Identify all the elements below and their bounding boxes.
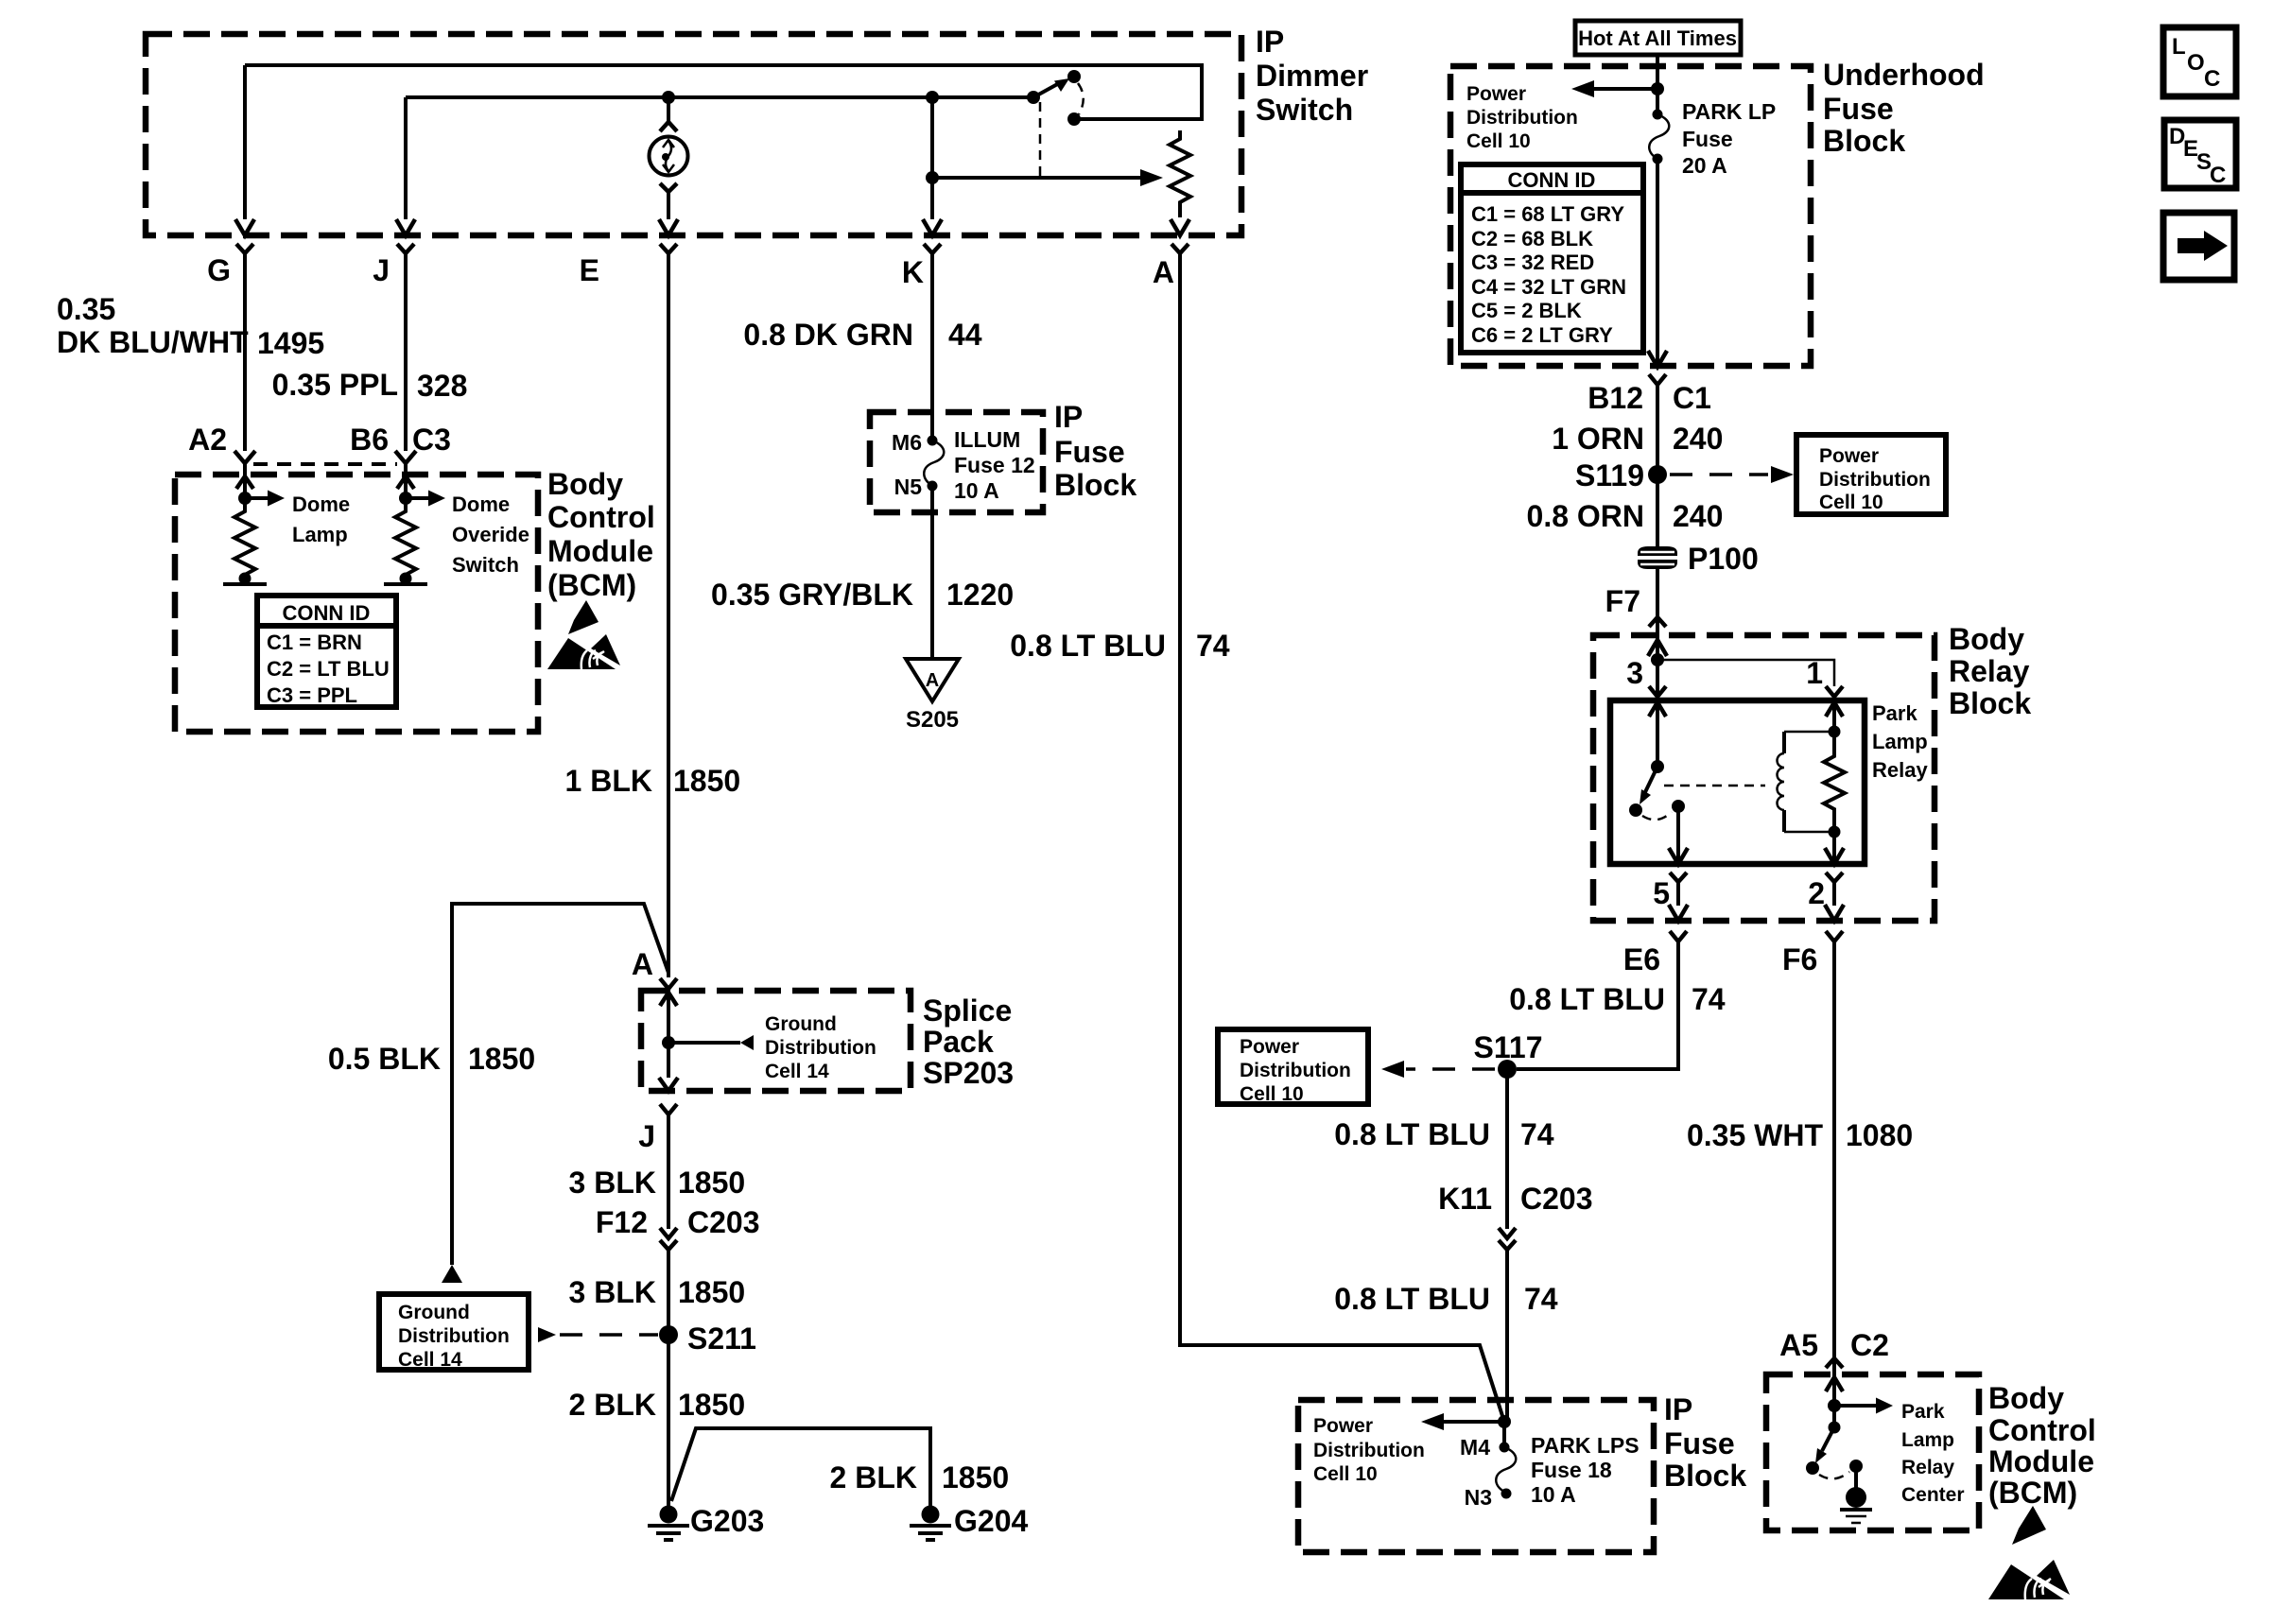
node: K junction on second bus [926, 91, 939, 104]
relay output wire to pin 5 [1676, 806, 1680, 864]
switch blade with arrowhead [1822, 1427, 1834, 1451]
svg-text:1850: 1850 [942, 1460, 1009, 1494]
svg-text:3: 3 [1626, 656, 1643, 690]
wire: K drop inside box [930, 97, 934, 219]
svg-text:Park: Park [1901, 1401, 1945, 1423]
wire: S117 down to K11 [1505, 1069, 1509, 1229]
svg-text:74: 74 [1692, 982, 1726, 1016]
svg-text:A: A [632, 947, 653, 981]
svg-text:0.8 LT BLU: 0.8 LT BLU [1010, 629, 1166, 663]
lamp symbol on E branch [667, 97, 670, 122]
off-page triangle S205 [906, 659, 959, 701]
svg-text:C203: C203 [1520, 1182, 1593, 1216]
switch: dimmer selector common contact [1027, 91, 1040, 104]
wire: 1 ORN 240 [1656, 385, 1659, 554]
wire: K branch to rheostat wiper with arrowhead [932, 176, 1142, 180]
svg-text:Module: Module [547, 534, 653, 568]
arrowhead into relay at pin 3 [1649, 702, 1666, 717]
svg-text:Block: Block [1054, 468, 1136, 502]
dashed arrow S117 to Power Distribution box [1406, 1067, 1495, 1071]
wire: fuse output down through box [1656, 159, 1659, 366]
resistor dome override [395, 498, 416, 579]
node: splice junction [662, 1036, 675, 1049]
svg-text:Control: Control [1988, 1413, 2096, 1447]
CONN ID box right [1461, 164, 1643, 353]
wire: E6 riser to S117 [1517, 942, 1678, 1069]
wire: A2 stem into BCM [243, 463, 247, 498]
svg-text:0.35 PPL: 0.35 PPL [272, 368, 398, 402]
svg-text:328: 328 [417, 369, 467, 403]
svg-text:Ground: Ground [765, 1013, 837, 1035]
Hot At All Times box [1575, 21, 1741, 55]
arrowhead K exits box [923, 219, 942, 235]
svg-text:Relay: Relay [1901, 1457, 1954, 1478]
wire: E branch lower [667, 192, 670, 219]
svg-text:N3: N3 [1465, 1485, 1492, 1510]
arrowhead into relay block [1648, 640, 1667, 656]
wire to internal ground [1854, 1466, 1858, 1491]
wire: 0.5 BLK branch [452, 904, 668, 1265]
dome lamp ground bar [239, 573, 252, 585]
wire: F6 down to BCM A5/C2 [1832, 942, 1836, 1357]
svg-text:L: L [2172, 34, 2186, 60]
dashed arc to ground contact [1819, 1472, 1849, 1478]
ESD symbol bottom right [1988, 1506, 2070, 1599]
svg-text:3 BLK: 3 BLK [569, 1275, 656, 1309]
arrowhead pin 2 exits relay [1825, 848, 1844, 864]
svg-text:Power: Power [1240, 1036, 1299, 1058]
node: splice S117 [1498, 1060, 1517, 1079]
relay resistor [1824, 700, 1845, 864]
Body Relay Block dashed box [1593, 635, 1935, 921]
wire into BCM [1832, 1358, 1836, 1427]
arrowhead into splice pack [660, 993, 677, 1006]
arrow to Ground Distribution Cell 14 (in splice pack) [668, 1041, 740, 1045]
switch pivot in BCM [1829, 1422, 1841, 1434]
ground G204 [922, 1506, 940, 1524]
svg-text:A5: A5 [1779, 1328, 1818, 1362]
svg-text:Relay: Relay [1949, 654, 2030, 688]
arrowhead J exits box [396, 219, 415, 235]
fuse PARK LP 20 A [1653, 110, 1663, 120]
svg-text:PARK LP: PARK LP [1682, 99, 1776, 124]
switch lower throw contact [1067, 112, 1081, 126]
Ground Distribution Cell 14 box [379, 1294, 529, 1370]
svg-text:Power: Power [1819, 445, 1879, 467]
node: dome lamp junction [238, 492, 252, 505]
svg-text:Body: Body [547, 467, 623, 501]
svg-text:Distribution: Distribution [1819, 469, 1931, 491]
node: junction pin3/pin1 feed [1651, 653, 1664, 666]
svg-text:Distribution: Distribution [1313, 1440, 1425, 1461]
arrow to Power Distribution Cell 10 [1594, 87, 1657, 91]
svg-text:Dome: Dome [452, 492, 510, 516]
svg-text:Park: Park [1872, 701, 1917, 725]
svg-text:74: 74 [1196, 629, 1230, 663]
svg-text:Distribution: Distribution [398, 1325, 510, 1347]
svg-text:A: A [926, 670, 939, 691]
svg-text:240: 240 [1673, 422, 1723, 456]
svg-text:C2 = LT BLU: C2 = LT BLU [267, 657, 390, 681]
svg-text:DK BLU/WHT: DK BLU/WHT [57, 325, 249, 359]
Park Lamp Relay solid box [1610, 700, 1865, 864]
svg-text:C4 = 32 LT GRN: C4 = 32 LT GRN [1471, 275, 1626, 299]
arrowhead into BCM at A2 [236, 476, 253, 489]
rheostat (dimmer resistor) [1170, 130, 1190, 217]
IP Fuse Block dashed box (bottom) [1298, 1400, 1654, 1552]
svg-text:CONN ID: CONN ID [283, 601, 371, 625]
svg-text:CONN ID: CONN ID [1508, 168, 1596, 192]
connector chevron J below box [397, 244, 414, 253]
Power Distribution Cell 10 box (mid) [1218, 1029, 1368, 1104]
resistor dome lamp [234, 498, 255, 579]
svg-text:A: A [1153, 255, 1174, 289]
svg-text:S117: S117 [1474, 1030, 1543, 1064]
svg-text:0.8 LT BLU: 0.8 LT BLU [1334, 1282, 1490, 1316]
connector chevron B12/C1 [1649, 374, 1666, 385]
svg-text:C203: C203 [687, 1205, 760, 1239]
svg-text:(BCM): (BCM) [547, 568, 636, 602]
DESC box [2164, 120, 2236, 188]
svg-text:Overide: Overide [452, 523, 529, 546]
switch contact [1806, 1461, 1819, 1475]
relay switch blade with arrowhead [1645, 767, 1657, 792]
svg-text:Body: Body [1988, 1381, 2064, 1415]
svg-text:Fuse: Fuse [1682, 127, 1733, 151]
Splice Pack dashed box [641, 991, 911, 1091]
wire: E (1 BLK) from dimmer to splice pack [667, 253, 670, 977]
dashed arrow S119 to Power Distribution box [1670, 473, 1768, 476]
svg-text:IP: IP [1256, 25, 1284, 59]
wire: J down to BCM connector [404, 253, 408, 451]
node: junction at power distribution tap [1651, 82, 1664, 95]
connector chevron above splice pack [660, 978, 677, 989]
ground G203 [660, 1506, 678, 1524]
wire: 0.8 LT BLU into IP fuse block [1505, 1250, 1509, 1422]
svg-text:Hot At All Times: Hot At All Times [1578, 26, 1737, 50]
arrowhead A wire exits box [1171, 219, 1189, 235]
svg-text:G: G [207, 253, 231, 287]
ESD symbol left [547, 600, 620, 669]
pin chevron 2 [1826, 872, 1843, 882]
wire: dimmer top bus (G to switch feed) [245, 65, 1202, 119]
arrowhead G exits box [235, 219, 254, 235]
connector chevron J below splice pack [660, 1104, 677, 1114]
wire: 0.35 GRY/BLK to S205 [930, 486, 934, 659]
svg-text:J: J [638, 1119, 655, 1153]
svg-text:C5 = 2 BLK: C5 = 2 BLK [1471, 299, 1582, 322]
arrow to Park Lamp Relay Center label [1834, 1404, 1876, 1408]
relay switch contact [1629, 803, 1642, 817]
svg-text:Cell 14: Cell 14 [765, 1061, 829, 1082]
relay switch feed wire [1656, 700, 1659, 767]
wire pin5 to block edge [1676, 882, 1680, 906]
svg-text:Module: Module [1988, 1444, 2094, 1478]
svg-text:M4: M4 [1460, 1435, 1490, 1460]
svg-text:0.5 BLK: 0.5 BLK [328, 1042, 441, 1076]
relay coil [1782, 732, 1786, 832]
svg-text:240: 240 [1673, 499, 1723, 533]
svg-text:Cell 10: Cell 10 [1313, 1463, 1378, 1485]
arrowhead into BCM [1826, 1377, 1843, 1391]
svg-text:C2: C2 [1850, 1328, 1889, 1362]
svg-text:44: 44 [948, 318, 982, 352]
relay switch pivot [1651, 760, 1664, 773]
svg-text:Cell 10: Cell 10 [1819, 492, 1883, 513]
svg-text:74: 74 [1520, 1117, 1554, 1151]
dashed mechanical link coil to switch [1664, 785, 1765, 787]
svg-text:K11: K11 [1438, 1182, 1492, 1216]
arrowhead into BCM at C3 [397, 476, 414, 489]
wire: G drop inside box [243, 65, 247, 219]
svg-text:C1 = 68 LT GRY: C1 = 68 LT GRY [1471, 202, 1624, 226]
svg-text:N5: N5 [894, 475, 923, 499]
svg-text:Switch: Switch [452, 553, 519, 577]
svg-text:S205: S205 [906, 707, 959, 733]
svg-text:1850: 1850 [678, 1275, 745, 1309]
svg-text:Block: Block [1664, 1459, 1746, 1493]
wire pin2 to block edge [1832, 882, 1836, 906]
dashed arrow from box to S211 [538, 1327, 556, 1342]
off-page triangle to ground distribution [442, 1265, 462, 1283]
wire: dimmer second bus (J to switch common) [406, 95, 1030, 99]
svg-text:Lamp: Lamp [292, 523, 348, 546]
svg-text:Underhood: Underhood [1823, 58, 1985, 92]
svg-text:1850: 1850 [678, 1388, 745, 1422]
svg-text:10 A: 10 A [954, 478, 999, 503]
pin chevron 5 [1670, 872, 1687, 882]
svg-text:1850: 1850 [673, 764, 740, 798]
pin chevron 3 [1649, 686, 1666, 697]
node: E junction on second bus [662, 91, 675, 104]
svg-text:20 A: 20 A [1682, 153, 1727, 178]
IP Dimmer Switch dashed box [146, 34, 1241, 235]
svg-text:0.8 ORN: 0.8 ORN [1527, 499, 1644, 533]
svg-text:Fuse: Fuse [1054, 435, 1125, 469]
connector chevron G below box [236, 244, 253, 253]
arrowhead exits underhood box [1648, 351, 1667, 367]
svg-text:Ground: Ground [398, 1302, 470, 1323]
svg-text:2 BLK: 2 BLK [569, 1388, 656, 1422]
svg-text:1495: 1495 [257, 326, 324, 360]
svg-text:S119: S119 [1575, 458, 1644, 492]
svg-text:Distribution: Distribution [765, 1037, 876, 1059]
svg-text:F6: F6 [1782, 942, 1817, 976]
svg-text:C: C [2210, 163, 2226, 188]
svg-text:Lamp: Lamp [1901, 1429, 1954, 1451]
svg-text:1: 1 [1806, 656, 1823, 690]
svg-text:G204: G204 [954, 1504, 1028, 1538]
svg-text:M6: M6 [892, 430, 922, 455]
svg-text:E6: E6 [1623, 942, 1660, 976]
connector chevron A2 [234, 451, 255, 463]
ground contact dot [1849, 1460, 1863, 1473]
connector chevron K below box [924, 244, 941, 253]
switch upper throw contact [1067, 70, 1081, 83]
svg-text:C: C [2204, 66, 2220, 92]
svg-text:Switch: Switch [1256, 93, 1353, 127]
svg-text:S211: S211 [687, 1322, 756, 1356]
wire: C3 stem into BCM [404, 463, 408, 498]
svg-text:ILLUM: ILLUM [954, 427, 1020, 452]
wire: branch to G204 [671, 1428, 930, 1514]
svg-text:C2 = 68 BLK: C2 = 68 BLK [1471, 227, 1593, 251]
Power Distribution Cell 10 box (right) [1796, 435, 1946, 514]
svg-text:3 BLK: 3 BLK [569, 1166, 656, 1200]
node: junction at PARK LPS fuse [1498, 1415, 1511, 1428]
wire: K (0.8 DK GRN) to IP fuse block [930, 253, 934, 441]
svg-text:0.8 LT BLU: 0.8 LT BLU [1334, 1117, 1490, 1151]
svg-text:0.35: 0.35 [57, 292, 115, 326]
svg-text:Block: Block [1949, 686, 2031, 720]
svg-text:2: 2 [1808, 876, 1825, 910]
fuse ILLUM Fuse 12 10A [928, 436, 938, 446]
svg-text:C1: C1 [1673, 381, 1711, 415]
svg-text:SP203: SP203 [923, 1056, 1014, 1090]
svg-text:1 ORN: 1 ORN [1552, 422, 1644, 456]
svg-text:Cell 10: Cell 10 [1466, 130, 1531, 152]
svg-text:F12: F12 [596, 1205, 648, 1239]
svg-text:0.8 DK GRN: 0.8 DK GRN [743, 318, 913, 352]
svg-text:Power: Power [1313, 1415, 1373, 1437]
svg-text:74: 74 [1524, 1282, 1558, 1316]
Body Control Module dashed box [175, 475, 538, 732]
svg-text:Pack: Pack [923, 1025, 994, 1059]
IP Fuse Block dashed box (middle) [870, 412, 1043, 512]
svg-text:1220: 1220 [946, 578, 1014, 612]
arrowhead exits splice pack [659, 1078, 678, 1091]
svg-text:1080: 1080 [1846, 1118, 1913, 1152]
svg-text:10 A: 10 A [1531, 1482, 1576, 1507]
wire: A (0.8 LT BLU) long run to IP fuse block bottom [1180, 253, 1504, 1422]
svg-text:C3: C3 [412, 423, 451, 457]
svg-text:0.8 LT BLU: 0.8 LT BLU [1509, 982, 1665, 1016]
arrow to Power Distribution Cell 10 [1443, 1420, 1504, 1424]
node: junction park lamp relay center [1828, 1399, 1841, 1412]
svg-text:Distribution: Distribution [1240, 1060, 1351, 1081]
connector chevron F7 [1649, 617, 1666, 627]
connector chevron A5/C2 [1826, 1358, 1843, 1368]
svg-text:0.35 GRY/BLK: 0.35 GRY/BLK [711, 578, 913, 612]
dashed mechanical link from switch to rheostat arm [1039, 102, 1042, 178]
connector chevron E below box [660, 244, 677, 253]
arrow to Dome Lamp label [245, 496, 268, 500]
svg-text:1 BLK: 1 BLK [565, 764, 652, 798]
svg-text:Fuse: Fuse [1664, 1426, 1735, 1460]
svg-text:F7: F7 [1605, 584, 1640, 618]
svg-text:C6 = 2 LT GRY: C6 = 2 LT GRY [1471, 323, 1613, 347]
svg-text:Splice: Splice [923, 993, 1012, 1028]
connector chevron F6 [1826, 931, 1843, 942]
svg-text:Cell 10: Cell 10 [1240, 1083, 1304, 1105]
svg-text:J: J [373, 253, 390, 287]
arrowhead into relay at pin 1 [1826, 702, 1843, 717]
svg-text:P100: P100 [1688, 542, 1759, 576]
svg-text:1850: 1850 [468, 1042, 535, 1076]
svg-text:0.35 WHT: 0.35 WHT [1687, 1118, 1823, 1152]
svg-text:Center: Center [1901, 1484, 1965, 1506]
forward arrow box [2163, 213, 2234, 280]
switch blade with arrowhead [1033, 82, 1061, 97]
node: splice S119 [1648, 465, 1667, 484]
svg-text:2 BLK: 2 BLK [830, 1460, 917, 1494]
svg-text:B12: B12 [1588, 381, 1643, 415]
BCM dashed box (bottom right) [1766, 1374, 1979, 1530]
wire from Hot box into fuse block [1656, 55, 1659, 114]
svg-text:Cell 14: Cell 14 [398, 1349, 462, 1371]
dome override ground bar [400, 573, 412, 585]
Underhood Fuse Block dashed box [1450, 66, 1811, 366]
svg-text:A2: A2 [188, 423, 227, 457]
arrowhead E exits box [659, 219, 678, 235]
svg-text:PARK LPS: PARK LPS [1531, 1433, 1640, 1458]
svg-text:Block: Block [1823, 124, 1905, 158]
svg-text:Distribution: Distribution [1466, 107, 1578, 129]
svg-text:B6: B6 [350, 423, 389, 457]
node: splice S211 [659, 1325, 678, 1344]
svg-text:Power: Power [1466, 83, 1526, 105]
inline connector P100 [1638, 546, 1677, 569]
wire: F7 to body relay block [1656, 569, 1659, 660]
dashed arc relay contacts [1642, 812, 1672, 820]
wire: 3 BLK below C203 [667, 1250, 670, 1514]
svg-text:Fuse 12: Fuse 12 [954, 453, 1035, 477]
dashed arc between throw contacts [1078, 83, 1084, 114]
svg-text:E: E [580, 253, 599, 287]
svg-text:IP: IP [1664, 1392, 1692, 1426]
svg-text:C1 = BRN: C1 = BRN [267, 631, 362, 654]
svg-text:C3 = PPL: C3 = PPL [267, 683, 357, 707]
svg-text:Dome: Dome [292, 492, 350, 516]
svg-text:Relay: Relay [1872, 758, 1928, 782]
fuse PARK LPS Fuse 18 10 A [1502, 1422, 1506, 1447]
svg-text:G203: G203 [690, 1504, 764, 1538]
wire: 3 BLK to C203 [667, 1114, 670, 1229]
relay output contact [1672, 800, 1685, 813]
svg-text:O: O [2187, 50, 2205, 76]
svg-text:(BCM): (BCM) [1988, 1476, 2077, 1510]
svg-text:Control: Control [547, 500, 655, 534]
svg-text:Body: Body [1949, 622, 2024, 656]
svg-text:1850: 1850 [678, 1166, 745, 1200]
wire: J drop inside box [404, 97, 408, 219]
svg-text:Lamp: Lamp [1872, 730, 1928, 753]
svg-text:5: 5 [1653, 876, 1670, 910]
pin chevron 1 [1826, 686, 1843, 697]
connector chevron A below box [1171, 244, 1189, 253]
svg-text:IP: IP [1054, 400, 1083, 434]
svg-text:Fuse: Fuse [1823, 92, 1894, 126]
node: dome override junction [399, 492, 412, 505]
internal ground symbol [1846, 1487, 1866, 1508]
svg-text:C3 = 32 RED: C3 = 32 RED [1471, 251, 1594, 274]
svg-text:Dimmer: Dimmer [1256, 59, 1368, 93]
thin link to pin 1 [1657, 660, 1834, 686]
wire: G down to BCM connector [243, 253, 247, 451]
connector dashed line A2-C3 [253, 462, 397, 466]
connector chevron C3 [395, 451, 416, 463]
arrow to Dome Overide Switch label [406, 496, 428, 500]
CONN ID box left [257, 596, 396, 707]
LOC box [2163, 27, 2236, 96]
svg-text:K: K [902, 255, 924, 289]
svg-text:Fuse 18: Fuse 18 [1531, 1458, 1612, 1482]
connector chevron E6 [1670, 931, 1687, 942]
